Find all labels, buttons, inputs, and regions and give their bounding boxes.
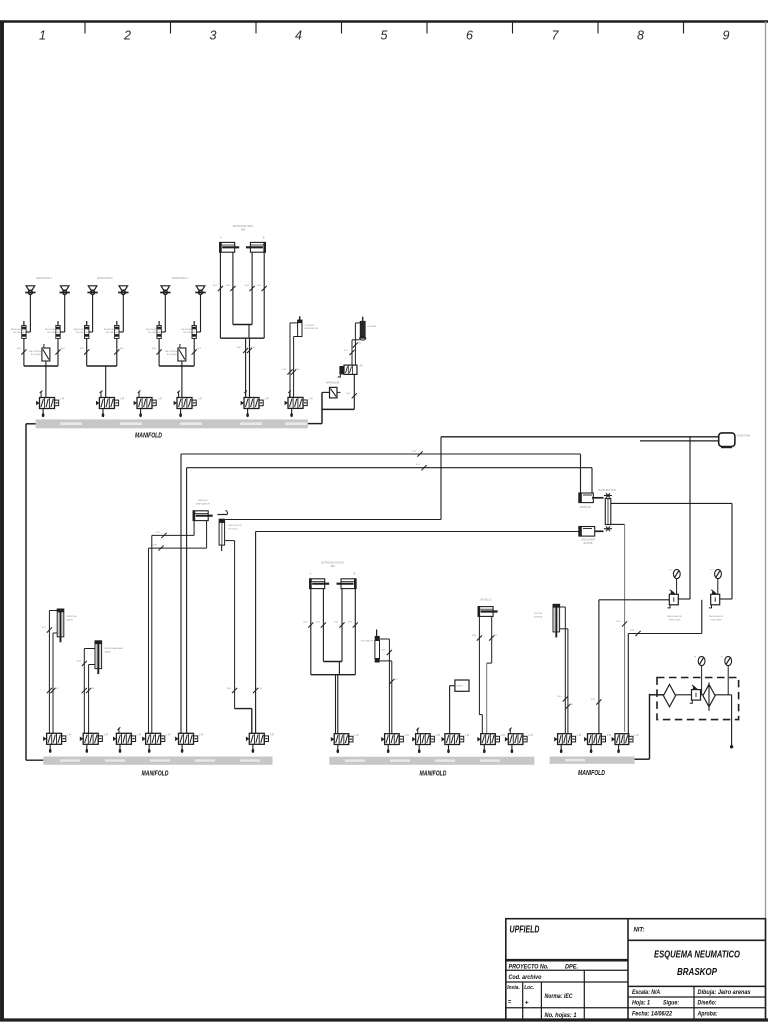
svg-text:1 /R: 1 /R [501,734,506,737]
pusher cylinder PC1 [193,510,213,521]
wire pair down to manifold3 V1 [335,675,337,734]
svg-text:REGULADOR: REGULADOR [709,615,723,618]
wire manifold4 V3 to regulator R2 [628,633,702,635]
svg-text:E34: E34 [382,650,387,652]
svg-text:Fecha: 14/06/22: Fecha: 14/06/22 [632,1010,672,1017]
svg-text:VENTOSA: VENTOSA [66,615,77,618]
svg-text:REGULADOR: REGULADOR [146,328,160,331]
manifold2 valve V5 [175,733,203,753]
svg-text:E08: E08 [283,369,288,371]
muffler M1 [360,317,366,340]
vacuum nozzle 1a [25,286,35,295]
solenoid valve row1 V2 [96,391,124,418]
svg-text:E40: E40 [558,696,563,698]
svg-text:1 /R: 1 /R [270,734,275,737]
vertical cylinder VC2 [95,641,102,674]
wire 3 left branch down [158,339,160,367]
svg-text:ESQUEMA NEUMATICO: ESQUEMA NEUMATICO [654,950,740,961]
svg-text:ASESOR: ASESOR [198,499,208,502]
wire VC2 b [89,664,95,666]
solenoid valve row1 V1 [36,391,64,418]
FRL gauge 4 stem [727,666,729,695]
svg-text:CILINDRO: CILINDRO [305,325,316,327]
svg-text:E16: E16 [258,688,263,690]
title block divider vertical main [627,919,629,1020]
manifold2 valve V3 stub [118,728,120,733]
svg-text:E31: E31 [316,622,321,624]
wire 3 U bottom [159,365,194,367]
svg-text:1 /R: 1 /R [528,734,533,737]
flow control valve 3a [157,321,161,339]
wire C1 outer down [219,252,221,338]
svg-text:E17: E17 [156,532,161,534]
wire C2 outer down [263,252,265,338]
wire VC1 a [49,610,57,612]
regulator R2 ports [720,598,732,600]
wire pair down to valve V5 [245,338,247,397]
wire main supply line [441,436,719,438]
svg-text:=: = [508,1000,512,1006]
svg-text:E05: E05 [61,348,66,350]
wire M1 a [355,322,360,324]
svg-text:1 /R: 1 /R [67,734,72,737]
svg-text:AV: AV [360,364,364,368]
svg-text:1 /R: 1 /R [120,398,125,401]
svg-text:PI: PI [721,657,723,659]
svg-text:E01: E01 [213,285,218,287]
wire inner U drop [248,325,250,339]
top cylinder C5 [478,606,498,617]
title block left h-line 4 [506,1007,628,1009]
svg-text:E12: E12 [347,393,352,395]
svg-text:1 /R: 1 /R [308,398,313,401]
wire VC1 b [53,632,57,634]
wire C2 inner down [251,252,253,324]
wire P2 drop to manifold2 V6 [255,532,257,734]
wire C3 outer down [310,589,312,675]
FRL filter [663,684,675,706]
wire 2 center down [105,366,107,398]
svg-text:Cod. archivo: Cod. archivo [509,974,542,981]
svg-text:ARRANQUE: ARRANQUE [326,382,340,385]
wire 3 right branch down [193,339,195,367]
wire 1 right branch down [57,339,59,367]
push button valve P1 [579,493,593,503]
svg-text:A: A [310,572,312,576]
svg-text:E14: E14 [416,464,421,466]
wire shuttle lower to manifold4 V3 [611,523,625,525]
svg-text:BRASKOP: BRASKOP [677,967,717,978]
svg-text:5: 5 [381,29,388,43]
FRL outlet [731,695,733,746]
border frame top line [0,20,768,22]
svg-text:E32: E32 [335,622,340,624]
svg-text:DPE.: DPE. [565,963,578,970]
svg-text:FUGA TANK: FUGA TANK [737,435,751,438]
svg-text:DE CAUDAL: DE CAUDAL [47,331,60,334]
vacuum nozzle 3b [195,286,205,295]
svg-text:Diseño:: Diseño: [698,999,717,1006]
cylinder C4 (right) [337,578,357,589]
svg-text:E11: E11 [344,350,349,352]
svg-text:ESTACION 3: ESTACION 3 [172,276,188,280]
wire M1 b [352,339,360,341]
wire C4 outer down [354,589,356,675]
wire VC3 b [560,628,568,630]
svg-text:PI: PI [669,570,671,572]
svg-text:A: A [220,236,222,240]
svg-text:OSCILADOR: OSCILADOR [361,640,374,643]
svg-text:Hoja: 1: Hoja: 1 [632,999,650,1006]
flow control valve 1a [22,321,26,339]
svg-text:E07: E07 [252,347,257,349]
wire PC1 a [193,521,195,535]
manifold4 valve V3 [612,734,639,753]
svg-text:1 /R: 1 /R [60,398,65,401]
svg-text:PISTON: PISTON [534,613,543,615]
svg-text:DE CAUDAL: DE CAUDAL [13,331,26,334]
svg-text:E05: E05 [17,348,22,350]
svg-text:REGULADOR: REGULADOR [45,328,59,331]
wire C1 inner down [232,252,234,324]
svg-text:E15: E15 [227,688,232,690]
svg-text:VALVULA DE: VALVULA DE [165,350,179,353]
regulator R1 [676,579,678,595]
oscillator component OS1 [376,630,378,636]
svg-text:9: 9 [723,29,730,43]
svg-text:1: 1 [39,29,46,43]
svg-text:VENTOSA ALINEA: VENTOSA ALINEA [104,647,123,650]
manifold 4 bar [550,757,635,764]
manifold2 valve V6 [246,733,274,753]
svg-text:1 /R: 1 /R [157,398,162,401]
solenoid valve row1 V3x (spare, stub only) [134,398,162,418]
svg-text:LIMITE: LIMITE [456,686,464,688]
wire shuttle to regulator R2 drop [611,502,732,504]
manifold3 valve V2 [381,734,409,753]
vacuum nozzle 2a [87,286,97,295]
solenoid valve row1 V5 [241,391,269,418]
wire C5 a [478,616,480,714]
wire nozzle 3b down [200,295,202,333]
svg-text:B: B [354,572,356,576]
svg-text:PI: PI [694,657,696,659]
svg-text:DE CAUDAL: DE CAUDAL [106,331,119,334]
title block left v-line a [522,982,524,1020]
manifold2 valve V3 [113,733,141,753]
svg-text:E05: E05 [80,348,85,350]
svg-text:ESTACION GATOS: ESTACION GATOS [321,561,344,565]
wire supply drop to roller feed [440,437,442,520]
svg-text:SUBIDA: SUBIDA [534,616,543,619]
svg-text:PUSH BUTTON: PUSH BUTTON [599,489,616,492]
FRL gauge 3 [694,656,705,665]
svg-text:1 /R: 1 /R [634,734,639,737]
valve AV (3/2) [339,366,344,374]
svg-text:UPFIELD: UPFIELD [510,925,540,936]
wire nozzle 2a down [92,295,94,333]
wire vertical to manifold2 V5 b [186,468,188,734]
svg-text:Loc.: Loc. [524,985,534,991]
manifold3 valve V5 [477,734,505,753]
svg-text:1 /R: 1 /R [104,734,109,737]
svg-text:ESTACION 2: ESTACION 2 [97,276,113,280]
svg-text:MANIFOLD: MANIFOLD [578,768,605,777]
vacuum nozzle 1b [60,286,70,295]
svg-text:DE CAUDAL: DE CAUDAL [76,331,89,334]
svg-text:E21: E21 [42,627,47,629]
wire AV output down [353,374,355,409]
wire C3C4 inner U [323,661,342,663]
svg-text:BLOQUEO: BLOQUEO [31,354,42,356]
svg-text:REGULADOR: REGULADOR [74,328,88,331]
svg-text:E41: E41 [570,704,575,706]
svg-text:1 /R: 1 /R [137,734,142,737]
soft start box ARRANQUE [330,387,338,398]
FRL dashed enclosure [657,678,739,720]
svg-text:1 /R: 1 /R [264,398,269,401]
svg-text:7: 7 [552,29,560,43]
title block left v-line b [540,982,542,1020]
svg-text:RETENEDOR: RETENEDOR [305,328,319,330]
svg-text:CAIDA: CAIDA [66,619,73,622]
svg-text:E05: E05 [197,348,202,350]
FRL gauge 4 [721,656,732,665]
svg-text:8: 8 [637,29,644,43]
svg-text:Norma: IEC: Norma: IEC [545,993,573,1000]
title block left v-line c [583,970,585,1020]
svg-text:Aproba:: Aproba: [697,1010,718,1017]
vertical cylinder VC3 [553,604,560,637]
svg-text:1 /R: 1 /R [405,734,410,737]
wire OS1 b [380,660,392,662]
svg-text:Dibuja: Jairo arenas: Dibuja: Jairo arenas [698,989,751,996]
FRL regulator [690,685,701,703]
svg-text:E02: E02 [226,285,231,287]
svg-text:1 /R: 1 /R [577,734,582,737]
svg-text:E18: E18 [153,545,158,547]
svg-text:MANIFOLD: MANIFOLD [420,768,447,777]
svg-text:VALVULA DE: VALVULA DE [29,350,43,353]
ruler tick marks [85,22,684,34]
svg-text:VALVULA DE: VALVULA DE [229,524,243,527]
svg-text:Escala: N/A: Escala: N/A [632,989,660,996]
svg-text:E03: E03 [245,285,250,287]
svg-text:EMPUJADOR: EMPUJADOR [196,503,210,506]
check valve block 1 [42,348,50,361]
svg-text:MANIFOLD: MANIFOLD [135,430,162,439]
svg-text:4: 4 [295,29,302,43]
vertical cylinder VC1 [57,609,64,642]
regulator R1 gauge [669,569,680,578]
svg-text:ESTACION GIRO: ESTACION GIRO [233,224,253,228]
wire supply drop to regulator R1 [689,437,691,599]
svg-text:E06: E06 [237,347,242,349]
svg-text:OE 8MM: OE 8MM [368,326,377,328]
flow control valve 2b [115,321,119,339]
svg-text:DE CAUDAL: DE CAUDAL [148,331,161,334]
FRL gauge 3 stem [701,666,703,695]
manifold3 valve V6 [505,734,533,753]
svg-text:PISTONES: PISTONES [710,620,722,622]
cylinder C3 (left) [309,578,329,589]
svg-text:AV SELLO: AV SELLO [480,599,492,602]
svg-text:MANIFOLD: MANIFOLD [142,768,169,777]
svg-text:1 /R: 1 /R [354,734,359,737]
border frame left line [0,22,4,1022]
solenoid valve row1 V6 [285,390,313,417]
svg-text:6: 6 [466,29,473,43]
wire long pair to push valve (lower) [187,467,592,469]
manifold3 valve V4 [442,734,470,753]
title block right h-line row3 [628,1007,766,1009]
svg-text:Insta.: Insta. [507,985,520,991]
wire OS1 a [380,638,390,640]
title block left h-line 2 [506,969,628,971]
svg-text:1 /R: 1 /R [199,734,204,737]
wire C3C4 outer U [311,674,356,676]
svg-text:E33: E33 [348,622,353,624]
solenoid valve row1 V3 [174,391,202,418]
title block right v-line [693,986,695,1020]
svg-text:REGULADOR: REGULADOR [104,328,118,331]
wire nozzle 2b down [122,295,124,333]
cylinder C1 (left) [219,242,239,253]
wire 2 U bottom [87,365,117,367]
wire 3 center down [181,361,183,398]
manifold 1 bar [36,419,308,428]
wire 1 left branch down [23,339,25,367]
svg-text:VENTOSAS: VENTOSAS [669,619,681,622]
svg-text:1 /R: 1 /R [436,734,441,737]
mini cylinder MC1 [299,316,301,320]
svg-text:E37: E37 [494,635,499,637]
wire 1 U bottom [24,365,58,367]
svg-text:1: 1 [340,363,342,365]
wire MC1 b [294,336,300,338]
svg-text:REGULADOR: REGULADOR [668,615,682,618]
vacuum nozzle 3a [160,286,170,295]
FRL lubricator [703,684,715,706]
regulator R2 [717,579,719,595]
svg-text:1 /R: 1 /R [166,734,171,737]
manifold2 valve V2 [80,733,108,753]
svg-text:1 /R: 1 /R [465,734,470,737]
svg-text:E05: E05 [120,348,125,350]
border frame bottom line [0,1018,768,1021]
manifold4 valve V1 [554,734,581,753]
cylinder C2 (right) [246,242,266,253]
wire vertical to manifold2 V5 a [180,454,182,733]
manifold3 valve V3 stub [417,728,419,734]
svg-text:B: B [263,236,265,240]
svg-text:PROYECTO No.: PROYECTO No. [509,963,549,970]
svg-text:1 /R: 1 /R [607,734,612,737]
regulator R2 gauge [711,569,722,578]
svg-text:E36: E36 [472,635,477,637]
wire C3 inner down [322,589,324,662]
check valve block 3 [178,348,186,361]
svg-text:E30: E30 [304,622,309,624]
manifold3 valve V6 stub [509,728,511,734]
wire T to manifold1 right [322,408,354,410]
svg-text:E43: E43 [630,630,635,632]
svg-text:2: 2 [123,29,131,43]
wire LB1 down to manifold3 V4 [450,685,455,687]
wire PC1 b [206,521,208,548]
title block right h-line NIT [628,939,766,941]
wire long pair to push valve (upper) [181,453,581,455]
wire nozzle 1a down [29,295,31,333]
wire nozzle 1b down [64,295,66,333]
svg-text:3: 3 [210,29,217,43]
svg-text:REGULADOR: REGULADOR [181,328,195,331]
FRL through line [676,694,692,696]
svg-text:PI: PI [711,570,713,572]
svg-text:RODILLO: RODILLO [229,529,239,531]
oscillator valve P2 [579,527,595,537]
air supply symbol [719,433,735,447]
wire manifold4 V2 to regulator R1 [599,599,669,601]
flow control valve 1b [56,321,60,339]
manifold 3 bar [329,757,534,765]
flow control valve 3b [192,321,196,339]
ruler numbers 1-9 [39,29,730,43]
title block outer frame [506,919,766,1020]
manifold4 valve V2 [584,734,611,753]
svg-text:E24: E24 [91,688,96,690]
svg-text:E23: E23 [77,661,82,663]
svg-text:AJUSTE: AJUSTE [583,542,593,545]
manifold3 valve V3 [412,734,440,753]
svg-text:ESTACION 1: ESTACION 1 [37,276,53,280]
wire C4 inner down [341,589,343,662]
wire P2 long line left [256,531,579,533]
roller lever component RL1 [218,514,228,516]
vacuum nozzle 2b [118,286,128,295]
shuttle component S1 [604,495,612,497]
limit box LB1 [455,680,469,691]
svg-text:REGULADOR: REGULADOR [11,328,25,331]
title block left h-line 3 [506,981,628,983]
manifold 2 bar [43,757,272,765]
svg-text:E13: E13 [412,451,417,453]
svg-text:DE CAUDAL: DE CAUDAL [183,331,196,334]
svg-text:E42: E42 [591,699,596,701]
svg-text:E04: E04 [257,285,262,287]
wire VC3 a [560,606,565,608]
manifold2 valve V1 [43,733,71,753]
svg-text:NIT:: NIT: [634,927,645,934]
border frame right line [765,22,767,1021]
svg-text:ATORA AV: ATORA AV [580,506,592,509]
svg-text:E05: E05 [152,348,157,350]
title block right h-line title bottom [628,985,766,987]
wire 2 right branch down [116,339,118,367]
manifold2 valve V4 [142,733,170,753]
wire outer U bottom [220,337,264,339]
wire C5 b [491,616,493,663]
title block right h-line row2 [628,996,766,998]
wire nozzle 3a down [164,295,166,333]
wire 1 center down [45,361,47,398]
svg-text:E09: E09 [296,369,301,371]
svg-text:+: + [525,1000,529,1007]
wire VC2 a [84,648,95,650]
svg-text:BLOQUEO: BLOQUEO [167,354,178,356]
wire 2 left branch down [86,339,88,367]
wire MC1 a [290,322,298,324]
